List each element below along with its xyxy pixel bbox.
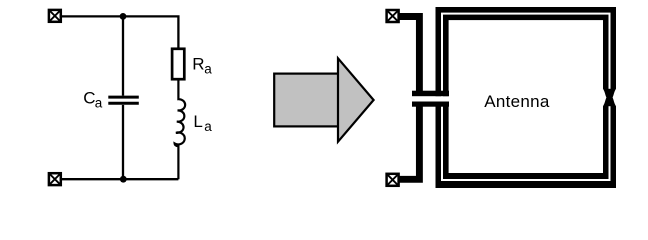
svg-text:a: a (204, 119, 212, 134)
svg-text:C: C (83, 89, 95, 108)
svg-text:Antenna: Antenna (484, 92, 550, 111)
svg-text:a: a (204, 61, 212, 76)
svg-text:L: L (193, 112, 202, 131)
svg-text:R: R (192, 55, 204, 74)
svg-text:a: a (95, 96, 103, 111)
